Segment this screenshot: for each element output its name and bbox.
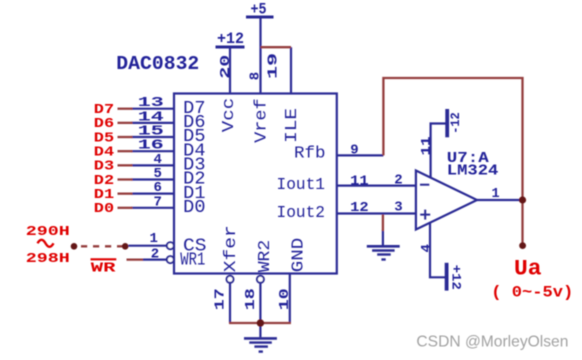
svg-text:18: 18 bbox=[243, 288, 259, 310]
svg-text:+12: +12 bbox=[448, 265, 463, 290]
svg-text:4: 4 bbox=[419, 244, 435, 252]
svg-text:LM324: LM324 bbox=[447, 163, 499, 180]
svg-text:Vcc: Vcc bbox=[220, 98, 239, 133]
svg-text:298H: 298H bbox=[26, 251, 70, 267]
svg-text:Vref: Vref bbox=[253, 98, 272, 143]
svg-text:19: 19 bbox=[265, 53, 281, 79]
svg-text:290H: 290H bbox=[26, 224, 70, 240]
svg-text:Ua: Ua bbox=[514, 256, 542, 281]
svg-text:17: 17 bbox=[213, 288, 229, 310]
svg-text:Iout2: Iout2 bbox=[277, 204, 326, 223]
svg-text:11: 11 bbox=[350, 173, 369, 189]
svg-text:ILE: ILE bbox=[283, 108, 302, 143]
svg-text:WR1: WR1 bbox=[180, 249, 205, 270]
svg-text:D0: D0 bbox=[94, 201, 114, 217]
svg-text:WR: WR bbox=[91, 260, 117, 276]
svg-text:Iout1: Iout1 bbox=[277, 176, 326, 195]
svg-text:Xfer: Xfer bbox=[222, 225, 241, 272]
svg-text:CSDN @MorleyOlsen: CSDN @MorleyOlsen bbox=[416, 333, 568, 350]
svg-text:D0: D0 bbox=[183, 197, 205, 218]
svg-text:20: 20 bbox=[218, 55, 234, 79]
svg-text:( 0~-5v): ( 0~-5v) bbox=[491, 283, 573, 301]
svg-text:DAC0832: DAC0832 bbox=[116, 53, 199, 75]
svg-text:WR2: WR2 bbox=[256, 240, 275, 273]
svg-text:+12: +12 bbox=[217, 30, 244, 48]
svg-text:GND: GND bbox=[289, 238, 308, 273]
svg-text:-12: -12 bbox=[448, 112, 463, 134]
svg-text:Rfb: Rfb bbox=[294, 144, 326, 163]
